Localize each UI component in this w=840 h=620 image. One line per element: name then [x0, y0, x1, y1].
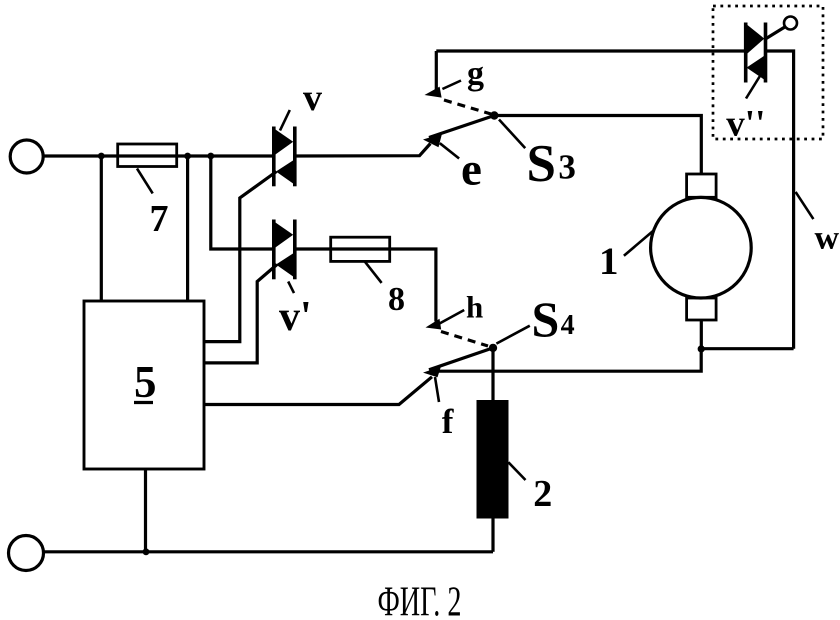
terminal T2 (bottom-left input) — [9, 536, 44, 571]
wire node B to box 5 — [186, 156, 189, 301]
wire bottom rail — [44, 550, 494, 553]
node C (junction dot to triac v') — [207, 153, 214, 160]
wire node A to box 5 — [100, 156, 103, 301]
svg-text:8: 8 — [388, 281, 405, 318]
node D (junction dot below motor) — [698, 345, 705, 352]
label 5 underline — [134, 401, 153, 404]
wire node D to w line — [701, 347, 793, 350]
wire S4 pivot to resistor 2 — [491, 348, 494, 400]
gate wire of triac v to box 5 — [204, 172, 277, 342]
wire S3 pivot to motor — [494, 116, 701, 175]
label 1 pointer — [624, 230, 654, 256]
wire triac v'' to terminal — [765, 27, 786, 40]
label w pointer — [796, 192, 814, 219]
resistor 7 — [118, 144, 177, 167]
svg-text:1: 1 — [599, 240, 619, 283]
svg-text:2: 2 — [533, 473, 552, 515]
triac v — [274, 127, 295, 187]
label g pointer — [442, 81, 461, 90]
switch S3 moving contact — [429, 116, 494, 138]
dotted enclosure around triac v'' — [713, 6, 823, 139]
svg-text:w: w — [815, 219, 840, 256]
label 7 pointer — [137, 169, 153, 194]
motor 1 top brush — [687, 174, 717, 197]
contact h arrowhead — [426, 319, 442, 330]
wire motor to node D — [700, 320, 703, 349]
resistor 8 — [331, 237, 390, 261]
switch S4 moving contact — [429, 348, 493, 370]
wire box 5 to bottom rail — [144, 469, 147, 552]
label S3 pointer — [499, 120, 525, 149]
dashed link h to S4 pivot — [441, 332, 488, 347]
node S4 pivot — [489, 344, 497, 352]
label f pointer — [435, 377, 439, 402]
triac v' — [274, 220, 295, 280]
wire box 5 to contact f — [204, 377, 432, 405]
node E (junction dot bottom rail) — [143, 548, 150, 555]
svg-text:g: g — [467, 56, 484, 93]
label v'' pointer — [746, 74, 762, 99]
wire top (g to triac v'') — [436, 49, 745, 52]
svg-text:e: e — [461, 144, 482, 196]
wire triac v to contact e — [295, 144, 431, 157]
wire contact f to node D — [438, 349, 701, 371]
svg-text:h: h — [466, 289, 483, 324]
contact f arrowhead — [423, 366, 441, 377]
label S4 pointer — [496, 326, 529, 344]
box 5 — [84, 301, 204, 469]
label e pointer — [440, 143, 459, 158]
svg-text:5: 5 — [134, 357, 157, 407]
svg-text:f: f — [442, 402, 454, 441]
svg-text:v': v' — [279, 294, 312, 340]
triac v'' — [746, 23, 766, 83]
svg-text:v: v — [303, 77, 322, 119]
wire triac v' to resistor 8 and contact h — [295, 249, 436, 322]
label 8 pointer — [365, 261, 382, 283]
label v pointer — [280, 110, 290, 131]
label h pointer — [439, 310, 464, 324]
terminal T1 (top-left input) — [10, 140, 43, 173]
node S3 pivot — [490, 111, 498, 119]
svg-text:S: S — [527, 135, 556, 193]
wire w — [766, 51, 794, 349]
node B (junction dot after resistor 7) — [184, 153, 191, 160]
resistor 2 (filled) — [477, 400, 509, 519]
node A (junction dot left) — [98, 153, 105, 160]
label 2 pointer — [508, 462, 525, 480]
gate wire of triac v' to box 5 — [204, 265, 277, 363]
dashed link g to S3 pivot — [444, 100, 491, 114]
svg-text:4: 4 — [561, 310, 575, 341]
wire top main (terminal to triac v) — [43, 154, 274, 157]
motor 1 bottom brush — [687, 298, 717, 320]
wire node C to triac v' — [211, 156, 274, 249]
svg-text:ФИГ. 2: ФИГ. 2 — [378, 580, 462, 620]
label v' pointer — [288, 282, 294, 294]
terminal (small circle at triac v'') — [784, 17, 797, 30]
wire resistor 2 to bottom rail — [491, 519, 494, 552]
svg-text:S: S — [532, 291, 560, 347]
svg-text:7: 7 — [150, 198, 169, 240]
svg-text:v'': v'' — [726, 103, 765, 144]
svg-text:3: 3 — [558, 148, 576, 187]
contact e arrowhead — [423, 134, 442, 148]
motor 1 body — [651, 197, 752, 298]
contact g arrowhead — [435, 51, 438, 90]
